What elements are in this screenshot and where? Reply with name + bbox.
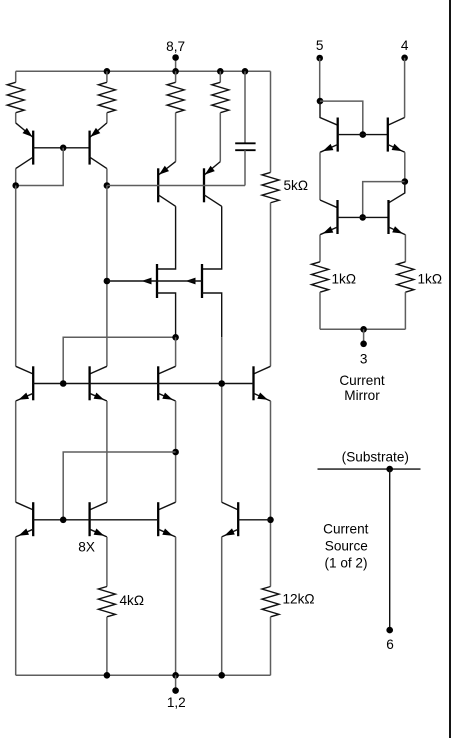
transistor Q2 emitter (90, 123, 107, 138)
transistor Q10 collector (254, 366, 271, 374)
svg-text:4: 4 (401, 38, 409, 53)
node Q (360, 326, 367, 333)
transistor Q14 base bar (237, 502, 239, 536)
wire substrate line (318, 468, 421, 470)
transistor Q6 lower lead (202, 293, 222, 337)
wire upper base row (33, 383, 253, 385)
transistor Q1 emitter (16, 123, 34, 138)
transistor Q16 collector (388, 118, 405, 126)
transistor Q1 base bar (32, 131, 34, 165)
node M (317, 98, 324, 105)
svg-text:3: 3 (360, 352, 368, 367)
wire Q3-Q4 base row (107, 185, 245, 187)
resistor R3 bottom lead (175, 113, 177, 162)
wire F column lower (175, 537, 177, 675)
transistor Q3 base bar (157, 168, 159, 202)
wire mid column (106, 186, 108, 367)
node base link (60, 145, 67, 152)
node pin 4 (401, 55, 408, 62)
transistor Q4 emitter (204, 162, 220, 176)
node O (402, 178, 409, 185)
node pin 5 (316, 55, 323, 62)
wire emitter row (107, 280, 202, 282)
node N (360, 131, 367, 138)
resistor R9 1k (397, 262, 414, 292)
svg-text:Source: Source (325, 538, 368, 553)
wire R5 bottom column (270, 203, 272, 366)
pin 1,2 stub (175, 675, 177, 690)
wire R7 bottom lead (270, 617, 272, 675)
transistor Q5 emitter arrow (142, 278, 152, 285)
wire mirror base row 2 (338, 216, 389, 218)
svg-text:(1 of 2): (1 of 2) (324, 556, 367, 571)
node pin 6 (386, 627, 393, 634)
wire Q16 emitter drop (404, 152, 406, 181)
resistor R3 (167, 82, 184, 112)
transistor Q18 collector (389, 182, 405, 203)
transistor Q18 emitter (389, 227, 406, 235)
transistor Q4 base bar (203, 168, 205, 202)
svg-text:1kΩ: 1kΩ (332, 271, 357, 286)
node E (60, 380, 67, 387)
pin 5 wire (319, 58, 321, 101)
transistor Q8 base bar (88, 366, 90, 400)
capacitor C1 bottom lead (244, 150, 246, 185)
transistor Q3 emitter (158, 162, 175, 176)
wire Q1-Q2 base link (33, 147, 89, 149)
resistor R3 top lead (175, 71, 177, 82)
transistor Q6 collector lead (202, 206, 222, 269)
wire A column mid (15, 401, 17, 502)
transistor Q16 base bar (387, 118, 389, 152)
node rail junction A (104, 68, 111, 75)
resistor R5 5k (262, 172, 279, 202)
transistor Q4 collector (204, 195, 222, 207)
wire Q1 collector drop (15, 169, 17, 186)
node F (218, 380, 225, 387)
wire R8 bottom lead (319, 292, 321, 329)
transistor Q18 base bar (387, 200, 389, 234)
transistor Q16 emitter (388, 145, 405, 153)
resistor R1 (7, 82, 24, 112)
wire F column mid (175, 401, 177, 502)
transistor Q10 emitter (254, 393, 271, 401)
node L (218, 672, 225, 679)
node rail junction C (217, 68, 224, 75)
wire K column mid (270, 401, 272, 587)
transistor Q9 base bar (157, 366, 159, 400)
node B (104, 182, 111, 189)
transistor Q15 emitter (320, 145, 338, 153)
node A (12, 182, 19, 189)
transistor Q8 collector (90, 366, 107, 374)
transistor Q5 collector lead (157, 206, 176, 269)
wire mirror link 2 (363, 182, 405, 218)
transistor Q10 base bar (252, 366, 254, 400)
transistor Q11 collector (16, 502, 34, 510)
resistor R1 bottom lead (15, 113, 17, 123)
node R (386, 466, 393, 473)
pin 3 stub (363, 329, 365, 344)
node P (359, 214, 366, 221)
node rail junction D (242, 68, 249, 75)
transistor Q3 collector (158, 195, 175, 207)
transistor Q6 base bar (201, 264, 203, 298)
svg-text:Mirror: Mirror (344, 388, 380, 403)
wire Q18 emitter lead (404, 235, 406, 262)
node rail junction B (172, 68, 179, 75)
transistor Q11 emitter (16, 529, 34, 537)
transistor Q15 collector (320, 101, 338, 125)
wire D emitter drop (106, 537, 108, 587)
resistor R8 1k (312, 262, 329, 292)
wire F column upper (175, 337, 177, 366)
wire lower base row left (33, 519, 158, 521)
svg-text:1,2: 1,2 (167, 695, 186, 710)
transistor Q17 collector (320, 200, 338, 208)
pin 4 wire (404, 58, 406, 118)
wire left column (15, 186, 17, 367)
wire H column lower (221, 537, 223, 675)
transistor Q9 collector (158, 366, 175, 374)
resistor R4 top lead (219, 71, 221, 82)
transistor Q12 base bar (88, 502, 90, 536)
resistor R6 4k (98, 587, 115, 617)
wire mirror link 1 (320, 101, 363, 135)
resistor R7 12k (262, 587, 279, 617)
wire D column mid (106, 401, 108, 502)
transistor Q2 base bar (88, 131, 90, 165)
right border line (449, 0, 451, 738)
svg-text:5kΩ: 5kΩ (284, 178, 309, 193)
node J (104, 672, 111, 679)
transistor Q11 base bar (32, 502, 34, 536)
svg-text:Current: Current (323, 522, 369, 537)
node pin 3 (360, 341, 367, 348)
resistor R4 bottom lead (219, 113, 221, 162)
resistor R2 (98, 82, 115, 112)
svg-text:1kΩ: 1kΩ (418, 271, 443, 286)
node K (172, 672, 179, 679)
wire Q2 collector drop (106, 169, 108, 186)
transistor Q9 emitter (158, 393, 175, 401)
svg-text:(Substrate): (Substrate) (342, 449, 409, 464)
wire Q17 emitter lead (319, 235, 321, 262)
node I (60, 517, 67, 524)
svg-text:8X: 8X (78, 539, 95, 554)
transistor Q6 emitter arrow (186, 278, 196, 285)
node G (172, 449, 179, 456)
transistor Q13 base bar (157, 502, 159, 536)
node D (172, 334, 179, 341)
wire link row 452 (63, 452, 175, 520)
transistor Q7 base bar (32, 366, 34, 400)
transistor Q14 emitter (222, 529, 239, 537)
wire R6 bottom lead (106, 617, 108, 675)
svg-text:12kΩ: 12kΩ (283, 592, 315, 607)
wire R9 bottom lead (404, 292, 406, 329)
node C (104, 278, 111, 285)
pin 8,7 stub (175, 58, 177, 72)
transistor Q12 collector (90, 502, 107, 510)
transistor Q13 emitter (158, 529, 175, 537)
transistor Q8 emitter (90, 393, 107, 401)
resistor R4 (212, 82, 229, 112)
wire H column (221, 337, 223, 502)
wire link row 337 (63, 337, 175, 383)
wire Q15 emitter drop (319, 152, 321, 200)
capacitor C1 (235, 142, 255, 144)
wire mirror bottom rail (320, 328, 405, 330)
wire A column lower (15, 537, 17, 675)
transistor Q5 base bar (156, 264, 158, 298)
transistor Q15 base bar (337, 118, 339, 152)
transistor Q14 collector (222, 502, 239, 510)
svg-text:8,7: 8,7 (166, 39, 185, 54)
wire bottom rail (16, 674, 271, 676)
resistor R2 bottom lead (106, 113, 108, 123)
node pin 1,2 (172, 687, 179, 694)
resistor R1 top lead (15, 71, 17, 82)
capacitor C1 top lead (244, 71, 246, 143)
node H (267, 517, 274, 524)
wire base-to-node link (16, 148, 64, 186)
transistor Q7 emitter (16, 393, 34, 401)
transistor Q1 collector (16, 157, 34, 169)
transistor Q7 collector (16, 366, 34, 374)
svg-text:Current: Current (339, 373, 385, 388)
svg-text:5: 5 (316, 38, 324, 53)
transistor Q13 collector (158, 502, 175, 510)
transistor Q17 emitter (320, 227, 338, 235)
transistor Q12 emitter (90, 529, 107, 537)
resistor R2 top lead (106, 71, 108, 82)
node pin 8,7 (172, 54, 179, 61)
wire top supply rail (16, 70, 271, 72)
svg-text:6: 6 (386, 637, 394, 652)
wire rail drop to R5 (270, 71, 272, 172)
transistor Q2 collector (90, 157, 107, 169)
svg-text:4kΩ: 4kΩ (120, 593, 145, 608)
transistor Q17 base bar (336, 200, 338, 234)
wire mirror base row 1 (338, 134, 388, 136)
transistor Q5 lower lead (157, 293, 176, 337)
wire lower base row right (238, 519, 270, 521)
wire substrate drop (389, 469, 391, 630)
